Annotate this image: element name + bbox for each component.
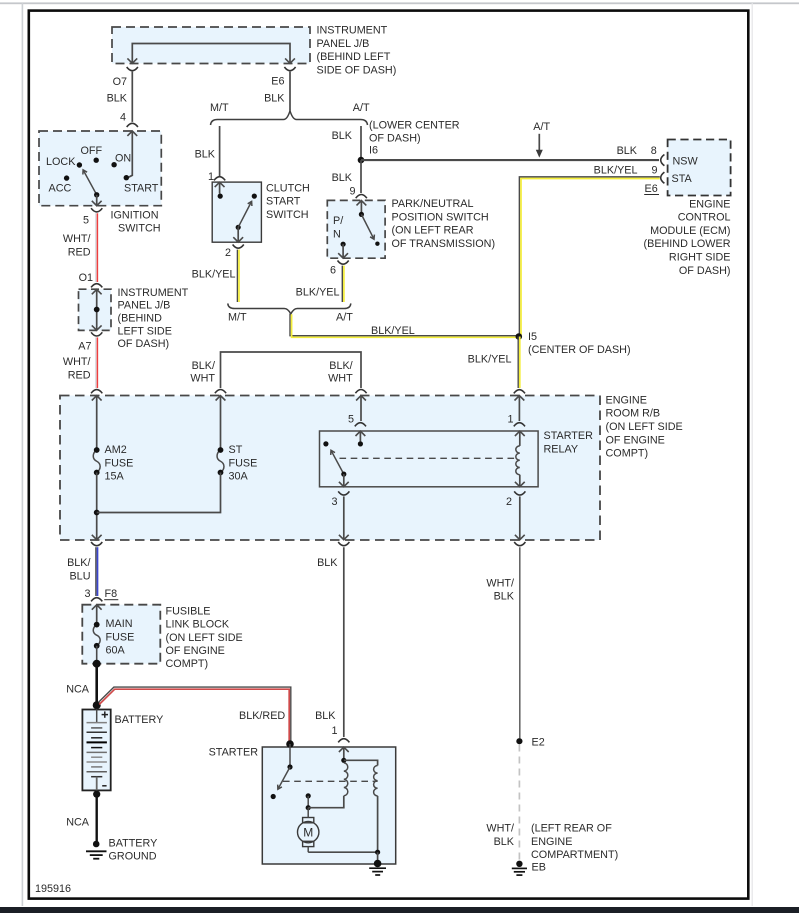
connector cup starter pin 1: [338, 739, 349, 743]
starter motor contact link: [307, 796, 309, 808]
svg-text:E6: E6: [271, 76, 284, 88]
MAIN fuse element: [93, 625, 100, 646]
connector cup E6: [284, 67, 295, 71]
wire M/T drop to clutch switch: [219, 126, 221, 176]
svg-text:BLK: BLK: [315, 710, 336, 722]
clutch start switch box: [212, 182, 261, 242]
svg-text:WHT/: WHT/: [63, 356, 91, 368]
lower M/T-A/T brace: [228, 303, 351, 314]
svg-text:OF DASH): OF DASH): [679, 265, 731, 277]
window right gray line: [752, 3, 753, 906]
battery plus sign: [102, 714, 108, 716]
svg-text:OFF: OFF: [81, 145, 103, 157]
svg-text:FUSE: FUSE: [105, 457, 134, 469]
relay contact right: [358, 441, 363, 446]
svg-text:LINK BLOCK: LINK BLOCK: [166, 619, 230, 631]
starter motor circle M: [298, 821, 319, 842]
svg-text:INSTRUMENT: INSTRUMENT: [118, 287, 189, 299]
svg-text:GROUND: GROUND: [109, 851, 157, 863]
engine room R/B box: [60, 396, 600, 541]
svg-text:A/T: A/T: [353, 102, 370, 114]
svg-text:E2: E2: [532, 736, 545, 748]
svg-text:LEFT SIDE: LEFT SIDE: [118, 325, 172, 337]
svg-text:M/T: M/T: [228, 312, 247, 324]
wire relay pin3 to R/B bottom: [343, 496, 345, 539]
svg-text:CONTROL: CONTROL: [678, 212, 731, 224]
svg-text:BLK: BLK: [617, 145, 638, 157]
connector cup P/N pin 9: [356, 195, 367, 199]
svg-text:BLK: BLK: [264, 93, 285, 105]
svg-text:NSW: NSW: [673, 155, 699, 167]
relay contact left: [323, 441, 328, 446]
svg-text:ST: ST: [229, 444, 243, 456]
connector cup relay pin 5: [355, 423, 366, 427]
svg-text:2: 2: [225, 247, 231, 259]
arrow out E6: [285, 58, 295, 63]
wire BLK O7 to ignition pin 4: [131, 72, 133, 122]
connector cup relay coil top: [514, 423, 525, 427]
connector cup P/N pin 6: [338, 261, 349, 265]
svg-text:I6: I6: [369, 144, 378, 156]
svg-text:BLK/: BLK/: [192, 360, 215, 372]
svg-text:RED: RED: [68, 246, 91, 258]
svg-text:OF ENGINE: OF ENGINE: [606, 434, 665, 446]
svg-text:IGNITION: IGNITION: [111, 209, 159, 221]
svg-text:BLU: BLU: [69, 570, 90, 582]
instrument panel J/B box (small): [79, 289, 112, 330]
relay blade pivot: [341, 472, 346, 477]
svg-text:STARTER: STARTER: [209, 746, 259, 758]
wire WHT/BLK relay2 to E2: [519, 547, 521, 738]
svg-text:COMPARTMENT): COMPARTMENT): [531, 849, 618, 861]
svg-text:CLUTCH: CLUTCH: [266, 182, 310, 194]
wire inside top J/B: [132, 44, 290, 64]
wire pin4 to START contact: [128, 131, 133, 178]
battery box: [82, 710, 110, 791]
svg-text:INSTRUMENT: INSTRUMENT: [317, 25, 388, 37]
svg-text:4: 4: [120, 112, 126, 124]
connector cup clutch pin 2: [233, 245, 244, 249]
svg-text:ENGINE: ENGINE: [689, 198, 730, 210]
battery plus terminal stub: [96, 710, 98, 723]
AM2 exit arrow: [92, 535, 102, 540]
svg-text:BLK: BLK: [195, 148, 216, 160]
starter mechanical dashed link: [283, 780, 378, 782]
wire motor to ground junction: [308, 851, 377, 853]
window left gray line: [22, 3, 24, 906]
AM2 fuse entry arrow: [92, 396, 102, 401]
svg-text:A/T: A/T: [533, 121, 550, 133]
svg-text:NCA: NCA: [66, 817, 90, 829]
svg-text:BATTERY: BATTERY: [115, 714, 164, 726]
svg-text:ROOM R/B: ROOM R/B: [606, 408, 661, 420]
svg-text:P/: P/: [333, 215, 343, 227]
svg-text:PANEL J/B: PANEL J/B: [118, 300, 171, 312]
svg-text:A/T: A/T: [336, 312, 353, 324]
starter contact pivot: [287, 764, 292, 769]
clutch contact in: [218, 194, 223, 199]
svg-text:ENGINE: ENGINE: [606, 394, 647, 406]
svg-text:(ON LEFT SIDE: (ON LEFT SIDE: [606, 421, 683, 433]
svg-text:LOCK: LOCK: [46, 156, 76, 168]
starter box: [262, 747, 395, 864]
P/N entry stub pin 9: [360, 201, 362, 213]
relay coil: [516, 446, 520, 475]
svg-text:BLK/YEL: BLK/YEL: [371, 325, 415, 337]
svg-text:M: M: [303, 826, 313, 840]
svg-text:2: 2: [506, 496, 512, 508]
wire A/T drop to I6: [360, 126, 362, 160]
junction in small J/B: [94, 307, 100, 313]
svg-text:BLK/YEL: BLK/YEL: [594, 165, 638, 177]
wire NCA to battery: [95, 664, 98, 709]
junction E2: [516, 738, 522, 744]
wire pull-in coil to motor junction: [308, 796, 344, 808]
svg-text:5: 5: [348, 414, 354, 426]
wire to starter ground: [377, 852, 379, 863]
connector cup ECM pin 9: [661, 172, 665, 183]
svg-text:5: 5: [83, 214, 89, 226]
svg-text:AM2: AM2: [105, 444, 127, 456]
clutch blade: [238, 201, 251, 227]
svg-text:BLK: BLK: [107, 93, 128, 105]
svg-text:8: 8: [651, 145, 657, 157]
svg-text:(LOWER CENTER: (LOWER CENTER: [369, 119, 460, 131]
svg-text:1: 1: [331, 725, 337, 737]
starter relay box: [320, 431, 539, 487]
svg-text:RELAY: RELAY: [544, 444, 579, 456]
wire BLK/RED battery to starter (two-tone): [99, 687, 291, 741]
battery minus stub: [96, 777, 98, 791]
svg-text:WHT/: WHT/: [486, 577, 514, 589]
svg-text:WHT: WHT: [190, 373, 215, 385]
clutch exit stub pin 2: [237, 227, 239, 242]
fusible entry arrow: [92, 605, 102, 610]
svg-text:START: START: [124, 183, 159, 195]
svg-text:WHT: WHT: [328, 373, 353, 385]
svg-text:1: 1: [507, 414, 513, 426]
dashed wire WHT/BLK E2 to EB ground: [518, 745, 520, 861]
connector cup below R/B relay2: [514, 542, 525, 546]
svg-text:SIDE OF DASH): SIDE OF DASH): [317, 64, 397, 76]
svg-text:STARTER: STARTER: [544, 430, 594, 442]
battery plates: [87, 722, 107, 724]
svg-text:POSITION SWITCH: POSITION SWITCH: [392, 211, 489, 223]
svg-text:(BEHIND LOWER: (BEHIND LOWER: [644, 238, 731, 250]
junction AM2/ST: [94, 510, 100, 516]
clutch entry stub: [219, 182, 221, 193]
connector cup A7: [91, 332, 102, 336]
wire BLK/WHT loop ST fuse to relay pin 5: [221, 352, 362, 388]
relay mechanical dashed link: [340, 457, 515, 459]
ECM box: [668, 140, 731, 196]
connector cup O7: [127, 67, 138, 71]
svg-text:F8: F8: [105, 588, 118, 600]
connector cup relay pin 2: [514, 491, 525, 495]
wire to ST fuse: [220, 396, 222, 449]
svg-text:(LEFT REAR OF: (LEFT REAR OF: [531, 823, 612, 835]
svg-text:BLK: BLK: [332, 172, 353, 184]
svg-text:3: 3: [331, 496, 337, 508]
connector cup ECM pin 8: [661, 155, 665, 166]
connector cup relay5 entry: [355, 390, 366, 394]
svg-text:(ON LEFT REAR: (ON LEFT REAR: [392, 225, 474, 237]
starter coil junction: [341, 758, 346, 763]
svg-text:ACC: ACC: [49, 183, 72, 195]
fusible link block box: [82, 605, 160, 664]
ST fuse entry arrow: [216, 396, 226, 401]
svg-text:ON: ON: [115, 152, 131, 164]
starter BLK/RED junction: [286, 740, 294, 748]
relay blade: [331, 450, 344, 474]
wire BLK/YEL I5 to engine room R/B (two-tone): [517, 337, 519, 389]
starter coil branch wire: [344, 760, 378, 765]
wire BLK/YEL P/N to A/T brace (two-tone): [341, 266, 343, 302]
ST fuse element: [217, 450, 224, 473]
contact LOCK: [77, 162, 82, 167]
AM2 fuse element: [93, 450, 100, 473]
starter pin1 stub: [343, 747, 345, 758]
svg-text:COMPT): COMPT): [606, 448, 649, 460]
junction I6: [358, 157, 365, 164]
battery negative junction: [93, 791, 100, 798]
wire hold-in coil to ground: [377, 796, 379, 852]
svg-text:BLK/YEL: BLK/YEL: [192, 269, 236, 281]
svg-text:OF TRANSMISSION): OF TRANSMISSION): [392, 238, 496, 250]
battery minus sign: [102, 785, 106, 787]
svg-text:ENGINE: ENGINE: [531, 836, 572, 848]
arrow out O7: [127, 58, 137, 63]
battery ground symbol: [93, 841, 100, 848]
connector cup R/B pin 1 entry: [514, 390, 525, 394]
contact START: [124, 175, 129, 180]
svg-text:OF DASH): OF DASH): [118, 338, 170, 350]
svg-text:SWITCH: SWITCH: [266, 209, 309, 221]
svg-text:START: START: [266, 196, 301, 208]
starter contact feed: [289, 744, 291, 767]
starter pin1 entry arrow: [339, 747, 349, 752]
svg-text:RIGHT SIDE: RIGHT SIDE: [669, 252, 731, 264]
wire BLK E6 to brace: [289, 72, 291, 111]
P/N blade: [361, 214, 374, 239]
wire BLK I6 to park/neutral pin 9: [360, 160, 362, 193]
svg-text:(BEHIND: (BEHIND: [118, 313, 163, 325]
connector cup ignition pin 4: [127, 123, 138, 127]
P/N pivot contact: [359, 212, 364, 217]
wire BLK/YEL clutch to M/T brace (two-tone): [236, 250, 238, 302]
svg-text:(BEHIND LEFT: (BEHIND LEFT: [317, 51, 391, 63]
svg-text:3: 3: [84, 588, 90, 600]
ignition exit stub pin 5: [96, 195, 98, 206]
svg-text:9: 9: [349, 185, 355, 197]
svg-text:6: 6: [330, 265, 336, 277]
P/N exit stub pin 6: [342, 244, 344, 258]
svg-text:WHT/: WHT/: [486, 823, 514, 835]
svg-text:EB: EB: [532, 861, 546, 873]
contact OFF: [94, 158, 99, 163]
starter motor stem upper: [307, 808, 309, 818]
relay5 entry arrow: [356, 396, 366, 401]
connector cup below R/B AM2: [91, 542, 102, 546]
starter pull-in coil: [344, 763, 348, 796]
relay coil to pin 2: [519, 475, 521, 487]
svg-text:BLK: BLK: [332, 130, 353, 142]
junction fusible output: [93, 660, 101, 668]
svg-text:30A: 30A: [229, 471, 249, 483]
window top gray line: [0, 2, 799, 4]
starter motor contact upper: [306, 793, 311, 798]
svg-text:OF DASH): OF DASH): [369, 133, 421, 145]
svg-text:FUSE: FUSE: [229, 457, 258, 469]
svg-text:BLK/YEL: BLK/YEL: [296, 287, 340, 299]
starter hold-in coil: [374, 766, 378, 796]
ignition pivot: [94, 192, 99, 197]
svg-text:O7: O7: [113, 76, 127, 88]
starter motor brush lower: [303, 841, 314, 846]
wire R/B pin1 to relay coil: [518, 396, 520, 421]
svg-text:60A: 60A: [106, 645, 126, 657]
relay coil stub: [519, 431, 521, 446]
wire to AM2 fuse: [96, 396, 98, 449]
taskbar bottom dark bar: [0, 907, 799, 913]
R/B pin1 entry arrow: [515, 396, 525, 401]
svg-text:1: 1: [208, 171, 214, 183]
svg-text:BLK/RED: BLK/RED: [239, 710, 285, 722]
svg-text:(ON LEFT SIDE: (ON LEFT SIDE: [166, 632, 243, 644]
EB ground symbol: [516, 861, 522, 867]
wire relay pin2 to R/B bottom: [519, 496, 521, 539]
wire main fuse to battery junction: [96, 646, 98, 664]
svg-text:E6: E6: [645, 183, 658, 195]
top M/T-A/T brace: [211, 111, 368, 125]
wire to relay pin 5: [360, 396, 362, 421]
contact ON: [111, 162, 116, 167]
svg-text:STA: STA: [672, 173, 693, 185]
svg-text:RED: RED: [68, 369, 91, 381]
starter ground symbol: [374, 860, 382, 868]
svg-text:BLK/YEL: BLK/YEL: [468, 354, 512, 366]
svg-text:MODULE (ECM): MODULE (ECM): [650, 225, 730, 237]
clutch lower contact: [236, 225, 241, 230]
wire BLK relay3 to starter pin 1: [343, 547, 345, 737]
svg-text:BLK: BLK: [317, 557, 338, 569]
svg-text:BLK/: BLK/: [329, 360, 352, 372]
P/N blade end contact: [375, 242, 379, 246]
wire battery to ground: [95, 794, 97, 841]
svg-text:OF ENGINE: OF ENGINE: [166, 645, 225, 657]
svg-text:COMPT): COMPT): [166, 658, 209, 670]
wire ST fuse to AM2 junction: [97, 473, 221, 513]
svg-text:SWITCH: SWITCH: [118, 223, 161, 235]
svg-text:9: 9: [651, 165, 657, 177]
wire AM2 fuse to R/B bottom: [96, 473, 98, 540]
connector cup F8: [91, 598, 102, 602]
svg-text:(CENTER OF DASH): (CENTER OF DASH): [528, 344, 631, 356]
ignition switch box: [39, 131, 161, 206]
junction I5: [516, 333, 523, 340]
svg-text:FUSIBLE: FUSIBLE: [166, 605, 211, 617]
svg-text:195916: 195916: [35, 883, 71, 895]
starter blade end contact: [271, 794, 276, 799]
starter junction motor: [306, 805, 311, 810]
svg-text:FUSE: FUSE: [106, 631, 135, 643]
connector cup R/B AM2 entry: [91, 390, 102, 394]
connector cup clutch pin 1: [214, 177, 225, 181]
ignition rotor blade: [83, 170, 97, 195]
instrument panel J/B box (top): [112, 27, 310, 64]
connector cup relay pin 3: [338, 491, 349, 495]
svg-text:BLK/: BLK/: [67, 557, 90, 569]
svg-text:BATTERY: BATTERY: [109, 837, 158, 849]
svg-text:A7: A7: [78, 340, 91, 352]
park/neutral position switch box: [327, 200, 385, 258]
connector cup ignition pin 5: [91, 208, 102, 212]
svg-text:BLK: BLK: [494, 591, 515, 603]
starter blade: [278, 767, 290, 789]
wire BLK I6 to ECM pin 8: [361, 159, 659, 161]
svg-text:N: N: [333, 228, 341, 240]
svg-text:O1: O1: [79, 272, 93, 284]
relay pin5 stub: [359, 431, 361, 441]
svg-text:15A: 15A: [105, 471, 125, 483]
wire BLK/YEL ECM to I5 (two-tone): [519, 177, 659, 337]
starter ground junction: [375, 850, 380, 855]
svg-text:MAIN: MAIN: [106, 618, 133, 630]
contact ACC: [64, 175, 69, 180]
svg-text:PARK/NEUTRAL: PARK/NEUTRAL: [392, 198, 474, 210]
starter motor stem lower: [307, 847, 309, 853]
wire through small J/B: [96, 289, 98, 330]
svg-text:M/T: M/T: [210, 102, 229, 114]
svg-text:PANEL J/B: PANEL J/B: [317, 38, 370, 50]
svg-text:WHT/: WHT/: [63, 233, 91, 245]
svg-text:I5: I5: [528, 331, 537, 343]
wire BLK/YEL brace to I5 (two-tone): [290, 314, 519, 336]
P/N output contact: [341, 242, 346, 247]
svg-text:NCA: NCA: [66, 683, 90, 695]
svg-text:BLK: BLK: [494, 836, 515, 848]
starter motor brush upper: [303, 818, 314, 823]
wire WHT/RED ignition to O1 (two-tone): [95, 213, 97, 282]
connector cup below R/B relay3: [338, 542, 349, 546]
relay pin3 stub: [343, 474, 345, 487]
wire BLK/BLU (two-tone): [95, 547, 97, 596]
wire WHT/RED A7 to AM2 fuse (two-tone): [95, 337, 97, 388]
connector cup ST fuse exit: [215, 390, 226, 394]
connector cup O1: [91, 284, 102, 288]
wire to main fuse: [96, 605, 98, 623]
junction battery positive: [93, 701, 101, 709]
clutch contact out upper: [252, 194, 257, 199]
